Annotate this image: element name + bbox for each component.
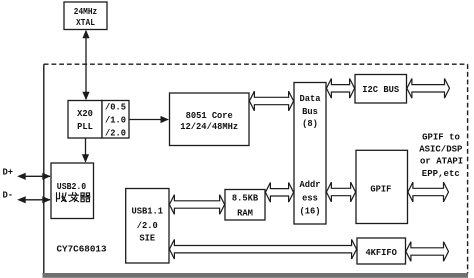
svg-text:8.5KB: 8.5KB — [232, 192, 258, 203]
bus arrow SIE to 4KFIFO — [169, 239, 356, 259]
svg-text:(8): (8) — [302, 118, 318, 129]
svg-text:CY7C68013: CY7C68013 — [57, 244, 107, 254]
svg-text:or ATAPI: or ATAPI — [420, 157, 463, 167]
svg-text:GPIF: GPIF — [370, 183, 391, 194]
svg-text:USB1.1: USB1.1 — [132, 206, 164, 217]
bus arrow 8051 Core to Data Bus — [249, 91, 293, 111]
block USB2.0 transceiver — [51, 163, 94, 219]
wire XTAL to PLL double arrow — [82, 30, 89, 100]
svg-text:GPIF to: GPIF to — [422, 133, 460, 143]
chip boundary bottom thick grey border — [43, 273, 469, 278]
chip boundary right dashed border — [467, 64, 469, 273]
bus arrow 4KFIFO to external pins — [406, 242, 449, 262]
svg-text:USB2.0: USB2.0 — [57, 181, 87, 192]
svg-text:(16): (16) — [300, 205, 321, 216]
block 4KFIFO — [357, 238, 406, 264]
wire D+ double arrow — [17, 173, 51, 180]
label GPIF to ASIC/DSP or ATAPI EPP,etc — [419, 133, 463, 180]
svg-text:PLL: PLL — [77, 121, 93, 132]
wire PLL to 8051 Core arrow — [129, 116, 169, 123]
svg-text:/2.0: /2.0 — [137, 220, 158, 231]
svg-text:D-: D- — [3, 189, 14, 200]
svg-text:/2.0: /2.0 — [105, 127, 126, 138]
svg-text:/0.5: /0.5 — [105, 101, 126, 112]
block GPIF — [356, 150, 408, 223]
svg-text:EPP,etc: EPP,etc — [422, 169, 460, 179]
label transceiver (Chinese) in USB2.0 block — [57, 193, 91, 202]
bus arrow SIE to RAM — [169, 195, 224, 215]
block USB1.1 /2.0 SIE — [126, 189, 169, 264]
bus arrow Data Bus to I2C BUS — [326, 79, 354, 99]
wire PLL to USB2.0 transceiver arrow — [82, 138, 89, 163]
svg-text:D+: D+ — [3, 166, 14, 177]
svg-text:XTAL: XTAL — [76, 17, 95, 28]
svg-text:ess: ess — [302, 192, 318, 203]
wire D- double arrow — [17, 196, 51, 203]
svg-text:SIE: SIE — [139, 232, 155, 243]
block 8.5KB RAM — [225, 190, 265, 221]
block I2C BUS — [355, 75, 407, 104]
block PLL divider /0.5 /1.0 /2.0 — [102, 101, 129, 139]
svg-text:ASIC/DSP: ASIC/DSP — [419, 145, 463, 155]
svg-text:Bus: Bus — [302, 106, 318, 117]
svg-text:/1.0: /1.0 — [105, 114, 126, 125]
svg-text:X20: X20 — [77, 108, 93, 119]
bus arrow I2C BUS to external pins — [407, 79, 450, 99]
block X20 PLL — [68, 101, 102, 139]
bus arrow GPIF to external pins — [408, 182, 449, 202]
chip boundary top dashed border — [44, 63, 468, 65]
svg-text:Addr: Addr — [300, 179, 321, 190]
block 24MHz XTAL — [64, 2, 107, 30]
block 8051 Core 12/24/48MHz — [170, 93, 250, 146]
block Data Bus (8) / Address (16) — [294, 83, 326, 225]
chip boundary left solid border — [43, 64, 45, 277]
bus arrow Address Bus to GPIF — [326, 182, 355, 202]
svg-text:RAM: RAM — [237, 208, 253, 219]
svg-text:4KFIFO: 4KFIFO — [365, 247, 397, 258]
svg-text:8051 Core: 8051 Core — [186, 110, 233, 121]
svg-text:24MHz: 24MHz — [74, 6, 98, 17]
svg-text:12/24/48MHz: 12/24/48MHz — [180, 121, 238, 132]
svg-text:I2C BUS: I2C BUS — [362, 84, 399, 95]
svg-text:Data: Data — [300, 93, 321, 104]
bus arrow RAM to Address Bus — [265, 183, 293, 203]
